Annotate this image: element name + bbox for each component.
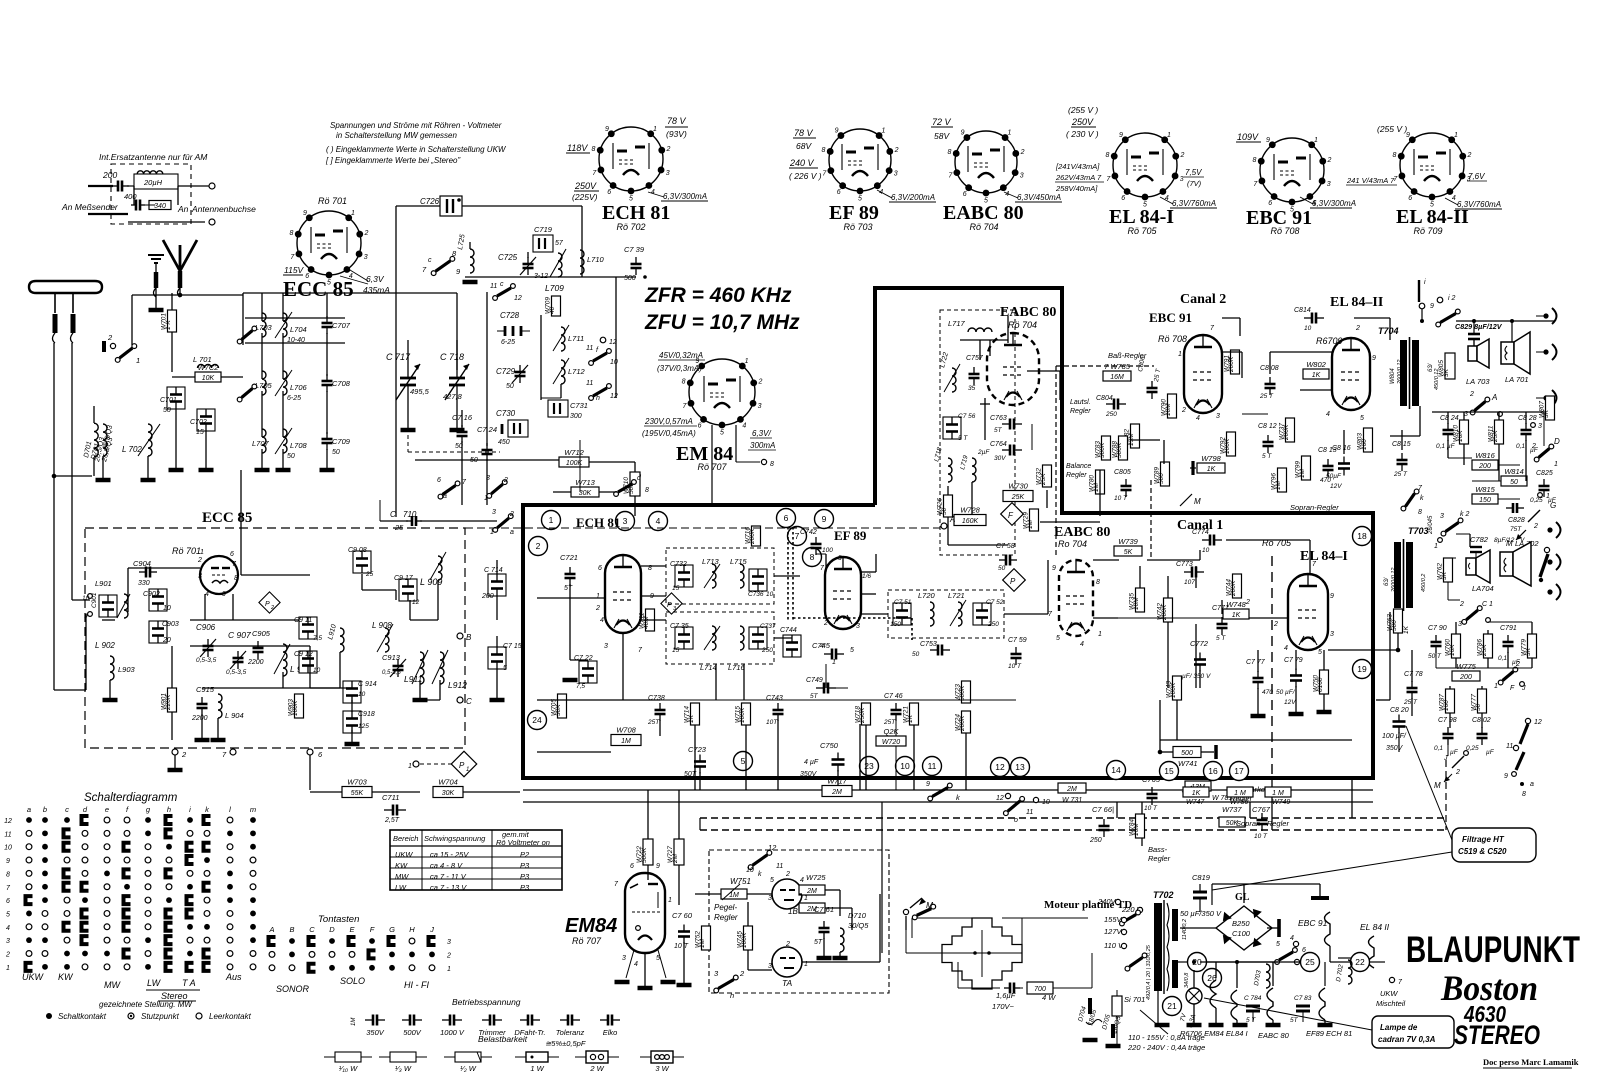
svg-text:C903: C903 (162, 621, 179, 628)
svg-text:C773: C773 (1176, 561, 1193, 568)
svg-text:W712: W712 (564, 448, 584, 457)
svg-text:1K: 1K (1207, 466, 1216, 473)
svg-text:G: G (389, 925, 395, 934)
resistor W791 200K (1231, 350, 1240, 374)
svg-text:200: 200 (102, 170, 117, 180)
svg-text:C901: C901 (91, 592, 98, 608)
svg-text:C701: C701 (160, 397, 177, 404)
svg-text:in Schalterstellung MW gemesse: in Schalterstellung MW gemessen (336, 131, 457, 140)
svg-text:C 717: C 717 (386, 352, 411, 362)
svg-text:W786: W786 (1230, 799, 1248, 806)
svg-text:1: 1 (1314, 137, 1318, 144)
resistor W805 3K (1445, 353, 1455, 379)
svg-text:45V/0,32mA: 45V/0,32mA (659, 351, 703, 360)
svg-text:Rö 708: Rö 708 (1270, 226, 1299, 236)
speaker LA703 (1468, 346, 1477, 361)
svg-text:2: 2 (757, 378, 762, 385)
svg-text:C7 15: C7 15 (503, 643, 522, 650)
pilot lamp (1186, 988, 1202, 1004)
svg-text:L707: L707 (252, 439, 270, 448)
svg-text:12: 12 (412, 599, 420, 606)
svg-text:2: 2 (536, 541, 541, 551)
svg-text:58V: 58V (934, 131, 950, 141)
svg-text:2: 2 (503, 477, 508, 484)
svg-text:7: 7 (795, 531, 800, 541)
svg-text:2: 2 (1455, 769, 1460, 776)
svg-text:C707: C707 (332, 321, 351, 330)
svg-text:k: k (1420, 495, 1424, 502)
svg-text:8: 8 (1096, 579, 1100, 586)
svg-text:F: F (370, 925, 375, 934)
switch A (1475, 402, 1486, 411)
svg-text:W798: W798 (1201, 454, 1221, 463)
svg-text:1140/0,2: 1140/0,2 (1182, 919, 1188, 940)
svg-text:11: 11 (776, 863, 783, 870)
inductor L702 variable (148, 424, 152, 456)
svg-text:200: 200 (1478, 463, 1491, 470)
svg-text:W783: W783 (1095, 441, 1102, 458)
resistor W792 100K (1227, 432, 1236, 456)
tube socket EABC 80 (Rö 704) (955, 131, 1017, 193)
svg-text:230V,0,57mA: 230V,0,57mA (644, 417, 693, 426)
switch 12 k 11 (753, 855, 768, 865)
resistor W713 30K (571, 487, 599, 497)
resistor W744 200K (1233, 574, 1242, 598)
svg-text:3: 3 (768, 895, 772, 902)
svg-text:C7 60: C7 60 (672, 911, 693, 920)
svg-text:W723: W723 (955, 684, 962, 701)
svg-text:L717: L717 (948, 319, 966, 328)
resistor W752 1M (702, 926, 711, 950)
svg-text:450: 450 (498, 439, 510, 446)
wire dashed AM gang (407, 400, 409, 452)
svg-text:1: 1 (200, 549, 204, 556)
svg-text:o: o (1014, 817, 1018, 824)
svg-text:492/0,4 | 20 | 310/0,25: 492/0,4 | 20 | 310/0,25 (1146, 944, 1152, 1000)
svg-text:W811: W811 (1488, 425, 1495, 442)
svg-text:C8 20: C8 20 (1390, 707, 1409, 714)
table Bereich Schwingspannung (390, 830, 562, 890)
svg-text:W814: W814 (1504, 467, 1524, 476)
svg-text:150: 150 (890, 621, 901, 628)
wire control bus dashed (1056, 365, 1154, 367)
svg-text:W708: W708 (616, 726, 636, 735)
svg-text:UKW: UKW (1380, 989, 1398, 998)
svg-text:W752: W752 (695, 931, 702, 948)
numbered circles power (1188, 953, 1207, 972)
svg-text:30/Q5: 30/Q5 (848, 921, 869, 930)
svg-text:C709: C709 (332, 437, 351, 446)
svg-text:25: 25 (394, 523, 404, 532)
tube socket EF 89 (Rö 703) (829, 129, 891, 191)
svg-text:9: 9 (961, 130, 965, 137)
svg-text:L709: L709 (545, 283, 564, 293)
svg-text:Bereich: Bereich (393, 834, 418, 843)
svg-text:W805: W805 (1438, 360, 1445, 377)
resistor 340 (149, 201, 171, 210)
svg-text:KW: KW (58, 972, 74, 982)
svg-text:Elko: Elko (603, 1028, 618, 1037)
svg-text:1: 1 (1454, 132, 1458, 139)
svg-text:L703: L703 (255, 323, 273, 332)
svg-text:3: 3 (1538, 423, 1542, 430)
arrow M canal2 (1180, 494, 1192, 506)
tube socket ECH 81 (Rö 702) (599, 127, 663, 191)
svg-text:L720: L720 (918, 591, 936, 600)
svg-text:18: 18 (1357, 531, 1367, 541)
dashed box ECC85 RF section (85, 528, 465, 748)
resistor W720 Q2K (876, 736, 906, 746)
resistor W798 1K (1197, 463, 1225, 473)
svg-text:C7 61: C7 61 (814, 905, 834, 914)
wire IF strip mesh (537, 597, 605, 599)
svg-text:Toleranz: Toleranz (556, 1028, 585, 1037)
svg-text:50: 50 (163, 407, 171, 414)
svg-text:W737: W737 (1279, 423, 1286, 440)
svg-text:C745: C745 (812, 641, 831, 650)
svg-text:a: a (1530, 781, 1534, 788)
tube EM84 bottom (625, 873, 665, 953)
svg-text:EL 84 II: EL 84 II (1360, 922, 1390, 932)
svg-text:W737: W737 (1222, 805, 1242, 814)
svg-text:427,8: 427,8 (443, 392, 463, 401)
svg-text:4: 4 (6, 925, 10, 932)
resistor W718 250K (862, 703, 871, 725)
svg-text:57: 57 (555, 240, 564, 247)
svg-text:Rö 703: Rö 703 (843, 222, 872, 232)
svg-text:11: 11 (586, 380, 593, 387)
capacitor C715 5 (488, 647, 506, 669)
svg-text:≅5%±0,5pF: ≅5%±0,5pF (545, 1039, 586, 1048)
resistor W775 200 (1452, 671, 1480, 681)
svg-text:W777: W777 (1471, 694, 1478, 711)
svg-text:HI - FI: HI - FI (404, 980, 429, 990)
svg-text:3: 3 (1216, 413, 1220, 420)
svg-text:C519 & C520: C519 & C520 (1458, 847, 1507, 856)
svg-text:C8 16: C8 16 (1332, 445, 1351, 452)
svg-text:250: 250 (987, 621, 999, 628)
resistor W803 160 (1364, 428, 1373, 452)
svg-text:W744: W744 (1226, 579, 1233, 596)
svg-text:MW: MW (395, 872, 409, 881)
svg-text:B: B (466, 633, 472, 642)
svg-text:(93V): (93V) (666, 129, 687, 139)
svg-text:100: 100 (822, 547, 833, 554)
svg-text:3: 3 (1330, 631, 1334, 638)
svg-text:125: 125 (358, 723, 369, 730)
svg-text:Si 701: Si 701 (1124, 995, 1145, 1004)
svg-text:h: h (730, 991, 734, 1000)
svg-text:LW: LW (147, 978, 162, 988)
svg-text:T702: T702 (1153, 890, 1174, 900)
svg-text:a: a (443, 493, 447, 500)
svg-text:W725: W725 (806, 873, 826, 882)
svg-text:C7 83: C7 83 (1294, 995, 1312, 1002)
resistor W727 2M (674, 839, 684, 865)
svg-text:12V: 12V (1284, 699, 1296, 706)
resistor W760 16K (1452, 634, 1461, 658)
svg-text:P: P (1010, 577, 1016, 586)
svg-text:C763: C763 (990, 415, 1007, 422)
resistor W709 40 (552, 296, 561, 316)
svg-text:C7 39: C7 39 (624, 245, 645, 254)
tube socket EM 84 (Rö 707) (689, 359, 755, 425)
svg-text:10 T: 10 T (1144, 805, 1158, 812)
svg-text:3: 3 (492, 509, 496, 516)
svg-text:3: 3 (768, 963, 772, 970)
svg-text:Regler: Regler (1070, 408, 1091, 415)
switch 11c12 (497, 288, 511, 296)
svg-text:240 V: 240 V (789, 158, 815, 168)
wire verticals to EM84 (647, 802, 649, 839)
svg-text:W715: W715 (735, 706, 742, 723)
svg-text:P3: P3 (520, 872, 530, 881)
svg-text:µF: µF (1486, 749, 1495, 756)
svg-text:22: 22 (1355, 957, 1365, 967)
svg-text:25 T: 25 T (1259, 393, 1274, 400)
switch 11-f-10 (593, 353, 607, 361)
svg-text:W787: W787 (1439, 694, 1446, 711)
svg-text:L912: L912 (448, 680, 467, 690)
svg-text:9: 9 (656, 863, 660, 870)
resistor W901 220K (168, 688, 177, 712)
svg-text:50: 50 (912, 651, 920, 658)
svg-text:Schalterdiagramm: Schalterdiagramm (84, 792, 178, 804)
svg-text:W792: W792 (1220, 437, 1227, 454)
svg-text:1: 1 (804, 895, 808, 902)
svg-text:W705: W705 (551, 699, 558, 716)
svg-text:9: 9 (303, 210, 307, 217)
svg-text:8: 8 (1253, 157, 1257, 164)
svg-text:1: 1 (1167, 132, 1171, 139)
svg-text:C906: C906 (196, 623, 216, 632)
wire shield dotted pair (787, 527, 789, 620)
svg-text:250V: 250V (574, 181, 597, 191)
resistor W703 55K (342, 787, 372, 798)
svg-text:C726: C726 (420, 197, 440, 206)
svg-text:D: D (1554, 437, 1560, 446)
svg-text:C902: C902 (143, 591, 160, 598)
resistor W814 50 (1501, 476, 1527, 486)
svg-text:15: 15 (196, 429, 204, 436)
capacitor C722 7,5 (579, 661, 597, 683)
svg-text:10: 10 (900, 761, 910, 771)
svg-text:10 T: 10 T (1254, 833, 1268, 840)
svg-text:4: 4 (1452, 195, 1456, 202)
svg-text:10T: 10T (766, 719, 778, 726)
svg-text:P3: P3 (520, 861, 530, 870)
svg-text:C819: C819 (1192, 873, 1211, 882)
svg-text:4: 4 (656, 516, 661, 526)
svg-text:2: 2 (1459, 601, 1464, 608)
svg-text:2: 2 (1469, 391, 1474, 398)
svg-text:L705: L705 (255, 381, 273, 390)
svg-text:Canal 2: Canal 2 (1180, 292, 1226, 307)
svg-text:10: 10 (1304, 325, 1312, 332)
svg-text:Pegel-: Pegel- (714, 903, 737, 912)
svg-text:1: 1 (484, 495, 488, 502)
resistor W702 10K (195, 372, 221, 382)
svg-text:2: 2 (1180, 152, 1185, 159)
svg-text:UKW: UKW (22, 972, 45, 982)
capacitor C735 25 (675, 627, 693, 649)
switch k2 lower (1445, 522, 1458, 531)
svg-text:L704: L704 (290, 325, 307, 334)
svg-text:5: 5 (741, 756, 746, 766)
capacitor C902 10 (149, 589, 167, 611)
svg-text:3: 3 (623, 516, 628, 526)
svg-text:0,5-3,5: 0,5-3,5 (382, 670, 401, 676)
svg-text:W716: W716 (745, 527, 752, 544)
svg-text:1M: 1M (621, 738, 631, 745)
wire horizontal bus y460 (403, 459, 553, 461)
svg-text:78 V: 78 V (667, 116, 687, 126)
capacitor C701 50 (167, 387, 185, 409)
svg-text:Leerkontakt: Leerkontakt (209, 1012, 252, 1021)
svg-text:µF: µF (1450, 749, 1459, 756)
svg-text:L 904: L 904 (225, 711, 244, 720)
svg-text:C905: C905 (252, 629, 271, 638)
socket TA (772, 947, 802, 977)
svg-text:3: 3 (1327, 181, 1331, 188)
svg-text:ECH 81: ECH 81 (602, 202, 670, 224)
svg-text:P2: P2 (520, 850, 530, 859)
svg-text:h: h (167, 805, 171, 814)
resistor W745 100K (744, 926, 753, 950)
svg-text:LA 703: LA 703 (1466, 377, 1490, 386)
svg-text:Rö 704: Rö 704 (1008, 320, 1037, 330)
svg-text:W751: W751 (730, 877, 751, 886)
svg-text:5T: 5T (994, 427, 1003, 434)
motor stepped cross (981, 930, 983, 977)
tube EBC91 (1184, 335, 1222, 413)
svg-text:EF 89: EF 89 (834, 528, 867, 543)
switch top right (1418, 280, 1420, 302)
svg-text:3: 3 (856, 623, 860, 630)
svg-text:3: 3 (894, 170, 898, 177)
tube ECH81 (605, 555, 641, 633)
svg-text:12: 12 (610, 393, 618, 400)
svg-text:C804: C804 (1096, 395, 1113, 402)
svg-text:C774: C774 (1192, 529, 1209, 536)
svg-text:2M: 2M (831, 789, 842, 796)
svg-text:EF89 ECH 81: EF89 ECH 81 (1306, 1029, 1352, 1038)
svg-text:C829 8µF/12V: C829 8µF/12V (1455, 322, 1503, 331)
svg-text:6: 6 (1268, 200, 1272, 207)
resistor W708 1M (611, 735, 641, 746)
capacitor C736 10 (749, 569, 767, 591)
svg-text:10: 10 (358, 691, 366, 698)
svg-text:2M: 2M (1066, 786, 1077, 793)
svg-text:1M: 1M (351, 1018, 357, 1026)
resistor W732 25K (1043, 465, 1052, 487)
wire UKW rails mid (465, 276, 636, 278)
svg-text:C711: C711 (382, 793, 399, 802)
svg-text:2: 2 (1515, 661, 1520, 668)
svg-text:2: 2 (270, 605, 274, 611)
svg-text:( ) Eingeklammerte Werte in Sc: ( ) Eingeklammerte Werte in Schalterstel… (326, 145, 507, 154)
svg-text:Rö 704: Rö 704 (969, 222, 998, 232)
svg-text:300mA: 300mA (750, 441, 775, 450)
svg-text:3: 3 (1458, 621, 1462, 628)
svg-text:250: 250 (1105, 411, 1117, 418)
svg-text:A: A (268, 925, 274, 934)
svg-text:8µF/12: 8µF/12 (1494, 537, 1515, 544)
svg-text:C772: C772 (1190, 639, 1209, 648)
svg-text:W718: W718 (855, 706, 862, 723)
dashed separator canal1 (1271, 556, 1273, 778)
svg-text:1: 1 (1434, 543, 1438, 550)
svg-text:1: 1 (490, 529, 494, 536)
svg-text:C7 90: C7 90 (1428, 625, 1447, 632)
svg-text:W749: W749 (1272, 799, 1290, 806)
svg-text:10: 10 (1042, 799, 1050, 806)
svg-text:cadran 7V 0,3A: cadran 7V 0,3A (1378, 1035, 1436, 1044)
svg-text:9: 9 (1330, 593, 1334, 600)
svg-text:3: 3 (1020, 172, 1024, 179)
resistor W784 16M (1136, 814, 1145, 838)
svg-text:262V/43mA 7: 262V/43mA 7 (1055, 173, 1102, 182)
svg-text:50: 50 (287, 453, 295, 460)
svg-text:UKW: UKW (395, 850, 413, 859)
svg-text:10: 10 (4, 845, 12, 852)
capacitor C744 1 (783, 635, 801, 657)
svg-text:26/045: 26/045 (1428, 515, 1434, 535)
svg-text:C719: C719 (534, 225, 553, 234)
svg-text:250: 250 (761, 647, 773, 654)
svg-text:Rö 701: Rö 701 (172, 546, 201, 556)
svg-text:11: 11 (4, 831, 11, 838)
svg-text:350V: 350V (366, 1028, 385, 1037)
svg-text:2: 2 (1020, 149, 1025, 156)
svg-text:C7 58: C7 58 (996, 543, 1015, 550)
svg-text:0,1 µF: 0,1 µF (1436, 443, 1456, 450)
svg-text:EABC 80: EABC 80 (1054, 525, 1110, 540)
wire speaker rail top (1456, 320, 1554, 322)
legend Schaltkontakt (46, 1013, 52, 1019)
svg-text:5T: 5T (564, 585, 573, 592)
svg-text:W790: W790 (1161, 399, 1168, 416)
svg-text:3: 3 (666, 170, 670, 177)
svg-text:L721: L721 (948, 591, 965, 600)
svg-text:Rö 707: Rö 707 (572, 936, 602, 946)
svg-text:a: a (510, 529, 514, 536)
svg-text:25K: 25K (1011, 494, 1025, 501)
resistor W716 200K (752, 526, 761, 546)
svg-text:[ ] Eingeklammerte Werte bei „: [ ] Eingeklammerte Werte bei „Stereo” (325, 156, 460, 165)
svg-text:6,3V/450mA: 6,3V/450mA (1017, 193, 1061, 202)
svg-text:A: A (949, 515, 955, 524)
svg-text:2 W: 2 W (589, 1064, 604, 1073)
wire TA TB mesh (695, 893, 721, 895)
capacitor C708 (326, 374, 328, 381)
wire coil columns (261, 293, 263, 321)
resistor W796 1M (1278, 468, 1287, 492)
svg-text:W735: W735 (1129, 593, 1136, 610)
svg-text:W726: W726 (937, 498, 944, 515)
svg-text:6: 6 (598, 565, 602, 572)
svg-text:109V: 109V (1237, 132, 1259, 142)
svg-text:340: 340 (154, 203, 166, 210)
svg-text:T703: T703 (1408, 526, 1429, 536)
svg-text:30K: 30K (579, 490, 592, 497)
svg-text:1K: 1K (1232, 612, 1241, 619)
node numbered terminals on border (542, 511, 561, 530)
svg-text:EABC 80: EABC 80 (1258, 1031, 1290, 1040)
resistor W722 500K (643, 839, 653, 865)
svg-text:P: P (265, 601, 270, 608)
svg-text:13: 13 (1015, 762, 1025, 772)
